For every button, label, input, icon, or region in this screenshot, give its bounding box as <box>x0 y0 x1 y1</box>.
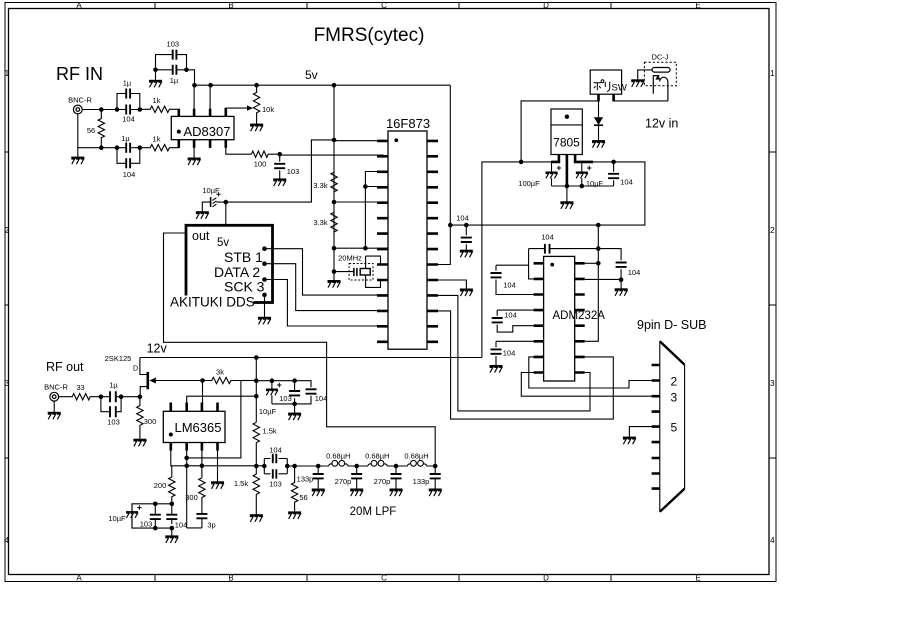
resistor 300 (gain) <box>199 478 205 511</box>
svg-text:3k: 3k <box>216 368 224 377</box>
resistor 1.5k (upper) <box>253 422 259 466</box>
16F873 right pins <box>427 141 438 342</box>
svg-text:1µ: 1µ <box>123 79 132 88</box>
svg-text:1.5k: 1.5k <box>263 427 277 436</box>
wire ADM RX in to DSUB pin3 <box>521 373 651 397</box>
resistor 3k (gate bias) <box>203 377 241 383</box>
capacitor 10uF (output) <box>581 162 583 186</box>
svg-text:3: 3 <box>671 391 678 405</box>
wire bias node <box>241 380 256 382</box>
svg-text:1µ: 1µ <box>109 381 118 390</box>
node LPF2 <box>354 464 359 469</box>
svg-text:0.68µH: 0.68µH <box>404 452 428 461</box>
wire LM pin b4 to ground <box>217 451 219 483</box>
svg-text:10k: 10k <box>262 105 274 114</box>
svg-text:104: 104 <box>123 170 136 179</box>
svg-text:103: 103 <box>167 40 180 49</box>
svg-text:3: 3 <box>5 379 10 388</box>
wire LM pin b3 down <box>201 451 203 478</box>
resistor 3.3k (lower) <box>331 212 337 232</box>
ground (source bias) <box>133 440 146 447</box>
svg-text:5v: 5v <box>305 68 318 82</box>
wire BNC to C1 node <box>82 109 117 111</box>
svg-text:ADM232A: ADM232A <box>553 310 606 322</box>
wire AD8307 pin to gnd <box>193 148 195 159</box>
wire PIC RX to ADM (outer loop) <box>438 311 613 419</box>
wire Vref node to PIC pin8 <box>334 247 388 249</box>
offset caps rails <box>170 502 175 507</box>
resistor 100 <box>251 151 279 157</box>
D-SUB pins <box>652 365 660 489</box>
svg-text:1µ: 1µ <box>121 134 130 143</box>
inductor L3 0.68uH <box>396 464 410 466</box>
svg-text:DC-J: DC-J <box>651 53 668 62</box>
ground (bias caps) <box>288 414 301 421</box>
svg-text:10µF: 10µF <box>108 514 126 523</box>
wire LM pin b1 / output line left end <box>171 451 172 477</box>
capacitor 104 (charge pump c3) <box>496 341 534 366</box>
svg-text:1: 1 <box>770 69 775 78</box>
wire BNC out to ground <box>53 401 55 413</box>
svg-text:56: 56 <box>87 126 95 135</box>
svg-text:20M LPF: 20M LPF <box>350 506 397 518</box>
crystal resonator symbol <box>354 268 357 276</box>
ground (V- cap) <box>615 289 628 296</box>
wire decouple pair to ground <box>155 70 157 81</box>
svg-text:1k: 1k <box>153 96 161 105</box>
ground (reg caps) <box>560 202 573 209</box>
svg-text:LM6365: LM6365 <box>175 420 222 435</box>
wire DDS gnd pin <box>264 295 266 318</box>
resistor 56 (input termination) <box>98 110 104 148</box>
wire 5v feed column to PIC left <box>333 85 335 248</box>
ground (RC0) <box>460 290 473 297</box>
ADM232A right pins <box>575 263 585 372</box>
capacitor 104 (V- decouple) <box>598 249 621 280</box>
AD8307 top pins <box>179 108 226 117</box>
svg-text:0.68µH: 0.68µH <box>365 452 389 461</box>
svg-text:out: out <box>192 229 210 243</box>
ground (BNC) <box>71 158 84 165</box>
wire gate node to LM6365 +in <box>200 378 205 383</box>
capacitor 103 (offset) <box>154 504 156 528</box>
svg-text:12v: 12v <box>147 342 168 356</box>
module AKITUKI DDS <box>186 225 273 302</box>
svg-text:0.68µH: 0.68µH <box>326 452 350 461</box>
resistor 200 <box>169 477 175 504</box>
svg-text:RF out: RF out <box>46 360 84 374</box>
node J1 <box>99 107 104 112</box>
svg-text:103: 103 <box>140 520 153 529</box>
svg-text:RF IN: RF IN <box>56 64 103 84</box>
wire DDS SCK to PIC <box>265 280 389 327</box>
wire pins3-4 tie column <box>365 172 388 249</box>
svg-text:20MHz: 20MHz <box>338 254 362 263</box>
frame column ticks top <box>155 3 611 9</box>
crystal 20MHz lead <box>334 271 354 273</box>
capacitor 10uF (bias) <box>271 381 273 404</box>
svg-text:SCK 3: SCK 3 <box>224 279 265 295</box>
svg-text:104: 104 <box>620 178 633 187</box>
capacitor 104 (output) <box>613 162 615 186</box>
svg-text:B: B <box>228 1 233 10</box>
svg-text:270p: 270p <box>374 477 391 486</box>
ground (DDS 10uF) <box>196 212 209 219</box>
ground (1.5k) <box>250 515 263 522</box>
svg-text:1.5k: 1.5k <box>234 479 248 488</box>
svg-text:104: 104 <box>315 394 328 403</box>
LM6365 top pins <box>171 403 218 412</box>
ground (AD8307) <box>188 159 201 166</box>
ground (diode) <box>592 141 605 148</box>
polyswitch ポリSW <box>590 70 621 94</box>
svg-text:D: D <box>543 1 549 10</box>
svg-text:2: 2 <box>671 375 678 389</box>
ground (decouple pair) <box>149 81 162 88</box>
svg-text:104: 104 <box>175 521 188 530</box>
bias decouple caps rail <box>256 381 311 414</box>
wire V+ column <box>529 249 534 279</box>
svg-text:300: 300 <box>144 417 157 426</box>
svg-text:100µF: 100µF <box>518 179 540 188</box>
capacitor 103/1u pair (AD8307 supply decouple) <box>156 55 187 70</box>
svg-text:16F873: 16F873 <box>386 116 430 131</box>
wire 3.3k chain to crystal/gnd <box>333 248 335 281</box>
series caps 104/103 <box>264 459 287 474</box>
wire AD8307 pins to 5v rail <box>194 85 210 109</box>
svg-text:3: 3 <box>770 379 775 388</box>
regulator U3 7805 <box>551 109 582 155</box>
svg-text:FMRS(cytec): FMRS(cytec) <box>314 25 425 46</box>
ground (DC-J) <box>631 80 644 87</box>
7805 pins <box>551 155 593 186</box>
svg-text:104: 104 <box>122 115 135 124</box>
capacitor 133p (2nd) <box>434 466 436 490</box>
svg-text:7805: 7805 <box>553 136 580 150</box>
svg-text:103: 103 <box>107 418 120 427</box>
capacitor 104 (offset) <box>171 509 173 524</box>
transceiver U4 ADM232A <box>544 256 575 381</box>
capacitor 104 (bias) <box>306 389 317 393</box>
svg-text:B: B <box>228 574 233 583</box>
svg-text:56: 56 <box>299 493 307 502</box>
op-amp U1 AD8307 <box>171 116 234 139</box>
diode (reverse protection) <box>598 101 600 141</box>
svg-text:103: 103 <box>279 394 292 403</box>
svg-text:3.3k: 3.3k <box>313 181 327 190</box>
svg-text:A: A <box>76 574 82 583</box>
ground (BNC out) <box>48 413 61 420</box>
wire 5v rail down to Vdd <box>438 85 450 264</box>
svg-text:AD8307: AD8307 <box>184 124 231 139</box>
svg-text:A: A <box>76 1 82 10</box>
capacitor 103 (bias) <box>294 381 296 404</box>
node LPF3 <box>394 464 399 469</box>
wire LM out to node A <box>187 396 257 402</box>
ground (Vdd decouple) <box>460 251 473 258</box>
resistor 56 (LPF input term) <box>292 464 297 469</box>
ADM232A left pins <box>534 263 544 372</box>
wire AD8307 wiper arrow to pot 10k <box>226 107 248 109</box>
svg-text:AKITUKI DDS: AKITUKI DDS <box>170 295 255 310</box>
ground (103) <box>273 179 286 186</box>
wire decouple pair to 5v rail <box>187 70 195 85</box>
svg-text:3.3k: 3.3k <box>313 218 327 227</box>
svg-text:104: 104 <box>269 446 282 455</box>
wire regulator output <box>450 162 645 225</box>
svg-text:5v: 5v <box>217 237 229 249</box>
potentiometer 10k <box>253 85 259 124</box>
resistor 1k (bottom) <box>140 145 179 151</box>
node LPF1 <box>316 464 321 469</box>
svg-text:D: D <box>543 574 549 583</box>
capacitor 270p (1st) <box>356 466 358 490</box>
svg-text:104: 104 <box>628 268 641 277</box>
svg-text:BNC-R: BNC-R <box>68 96 92 105</box>
capacitor 270p (2nd) <box>395 466 397 490</box>
svg-text:133p: 133p <box>413 477 430 486</box>
ground (DSUB5) <box>623 438 636 445</box>
wire 12v loop to rail <box>482 162 521 358</box>
resistor 3.3k (upper) <box>331 172 337 192</box>
svg-text:33: 33 <box>76 383 84 392</box>
frame column ticks bottom <box>155 575 611 582</box>
svg-text:2: 2 <box>5 226 10 235</box>
svg-text:E: E <box>695 574 700 583</box>
wire feedback <box>187 381 241 458</box>
svg-text:104: 104 <box>541 233 554 242</box>
ground (c3) <box>490 366 503 373</box>
capacitor 100uF (input) <box>551 162 553 186</box>
capacitor 10uF (offset) <box>131 504 133 528</box>
svg-text:4: 4 <box>5 536 10 545</box>
wire DDS STB to PIC <box>265 249 389 295</box>
svg-text:2SK125: 2SK125 <box>105 354 132 363</box>
svg-text:2: 2 <box>770 226 775 235</box>
AD8307 bottom pins <box>179 140 226 148</box>
wire DDS out to LPF <box>164 233 436 466</box>
svg-text:4: 4 <box>770 536 775 545</box>
capacitor 1u/104 pair (bottom input) <box>117 148 140 164</box>
svg-text:270p: 270p <box>335 477 352 486</box>
capacitor 104 (charge pump c2) <box>497 310 533 332</box>
wire log out to PIC pin2 <box>280 154 388 156</box>
LM6365 bottom pins <box>171 443 218 451</box>
svg-text:104: 104 <box>503 349 516 358</box>
wire PIC TX to ADM (inner loop) <box>438 295 590 411</box>
svg-text:5: 5 <box>671 421 678 435</box>
wire ADM TX out to DSUB pin2 <box>529 357 652 388</box>
capacitor 1u/103 pair (output coupling) <box>99 394 104 399</box>
resistor 300 (source bias) <box>137 397 143 440</box>
output line <box>172 465 264 467</box>
svg-text:10µF: 10µF <box>586 179 604 188</box>
svg-text:10µF: 10µF <box>202 186 220 195</box>
svg-text:BNC-R: BNC-R <box>44 383 68 392</box>
capacitor 104 (Vdd decouple) <box>464 223 469 228</box>
inductor L1 0.68uH <box>318 464 331 466</box>
drawing frame inner border <box>9 9 770 575</box>
ground (3.3k chain) <box>328 281 341 288</box>
ground (LM pin b4) <box>211 482 224 489</box>
ground (DDS) <box>258 318 271 325</box>
wire jack to polyswitch <box>614 100 668 102</box>
node source <box>138 394 143 399</box>
frame row ticks left <box>5 152 9 458</box>
svg-text:E: E <box>695 1 700 10</box>
ground (offset caps) <box>165 536 178 543</box>
resistor 33 <box>59 394 101 400</box>
wire branch to PIC pin5 <box>334 201 388 203</box>
wire DDS DATA to PIC <box>265 264 389 311</box>
wire V- / right rail <box>585 262 599 264</box>
svg-text:100: 100 <box>254 160 267 169</box>
wire caps common to ground <box>552 186 614 202</box>
op-amp U5 LM6365 <box>163 411 225 442</box>
wire inverting input chain <box>187 451 202 528</box>
drawing frame outer border <box>5 3 776 582</box>
gate lead with arrow <box>155 380 203 382</box>
svg-text:C: C <box>381 1 387 10</box>
DDS pin nodes <box>262 246 267 251</box>
wire BNC ground branch <box>78 114 117 158</box>
DC-J sleeve contact <box>653 75 668 101</box>
ground (56) <box>288 512 301 519</box>
svg-text:1: 1 <box>5 69 10 78</box>
crystal loop to PIC pins 9/10 <box>366 256 388 287</box>
svg-text:300: 300 <box>185 493 198 502</box>
wire branch to PIC pin1 <box>334 139 388 142</box>
svg-text:3p: 3p <box>207 521 215 530</box>
wire to LPF <box>287 465 318 467</box>
svg-text:D: D <box>133 366 138 373</box>
capacitor 103 (out filter) <box>279 154 281 179</box>
node A / 1.5k chain <box>254 378 259 383</box>
svg-text:104: 104 <box>503 281 516 290</box>
resistor 1.5k (lower) <box>253 466 259 515</box>
resistor 1k (top) <box>140 106 179 112</box>
svg-text:SW: SW <box>612 83 627 94</box>
node out filter <box>277 152 282 157</box>
wire branch to DDS 5v <box>227 140 334 202</box>
svg-text:103: 103 <box>269 480 282 489</box>
svg-text:STB 1: STB 1 <box>224 249 263 265</box>
frame row ticks right <box>769 152 776 458</box>
svg-text:1k: 1k <box>153 135 161 144</box>
svg-text:104: 104 <box>456 214 469 223</box>
16F873 left pins <box>377 141 388 342</box>
svg-text:9pin D- SUB: 9pin D- SUB <box>637 318 706 332</box>
capacitor 3p <box>196 514 207 518</box>
svg-text:1µ: 1µ <box>170 76 179 85</box>
node LPF4 <box>433 464 438 469</box>
svg-text:133p: 133p <box>297 475 314 484</box>
capacitor 133p (1st) <box>317 466 319 490</box>
svg-text:C: C <box>381 574 387 583</box>
wire DSUB pin5 to ground <box>629 427 651 438</box>
ground (pot) <box>250 125 263 132</box>
inductor L2 0.68uH <box>357 464 371 466</box>
svg-text:12v in: 12v in <box>645 117 678 131</box>
capacitor 104 (charge pump c1) <box>496 265 534 294</box>
svg-text:10µF: 10µF <box>259 407 277 416</box>
svg-text:104: 104 <box>504 311 517 320</box>
wire polyswitch to regulator input <box>521 101 598 162</box>
svg-text:103: 103 <box>287 167 300 176</box>
wire DDS 5v pin <box>225 202 227 225</box>
wire AD8307 out down right <box>226 148 252 154</box>
wire regulator input <box>521 161 551 163</box>
svg-text:200: 200 <box>154 481 167 490</box>
wire RC0 to ground <box>438 280 466 290</box>
capacitor 1u/104 pair (top input) <box>117 94 140 110</box>
